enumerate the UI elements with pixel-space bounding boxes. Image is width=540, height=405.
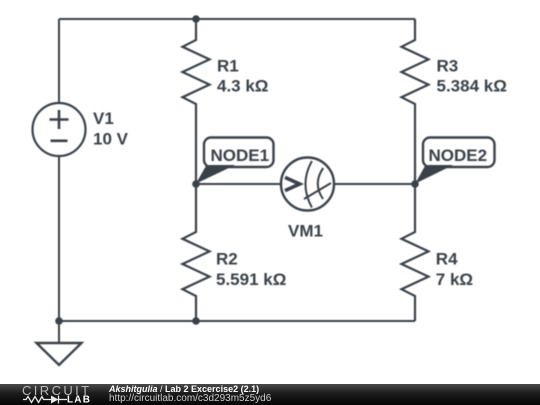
svg-text:5.591 kΩ: 5.591 kΩ	[216, 270, 286, 289]
svg-text:5.384 kΩ: 5.384 kΩ	[437, 77, 507, 96]
svg-text:R1: R1	[217, 56, 239, 75]
svg-text:LAB: LAB	[67, 395, 91, 405]
svg-text:7 kΩ: 7 kΩ	[436, 270, 473, 289]
svg-text:R3: R3	[437, 56, 459, 75]
svg-text:R2: R2	[216, 250, 238, 269]
svg-text:NODE1: NODE1	[211, 146, 270, 165]
svg-text:4.3 kΩ: 4.3 kΩ	[217, 77, 268, 96]
svg-text:VM1: VM1	[288, 222, 323, 241]
svg-text:10 V: 10 V	[93, 130, 129, 149]
svg-text:R4: R4	[436, 250, 458, 269]
svg-text:NODE2: NODE2	[429, 146, 488, 165]
svg-text:V1: V1	[93, 109, 114, 128]
